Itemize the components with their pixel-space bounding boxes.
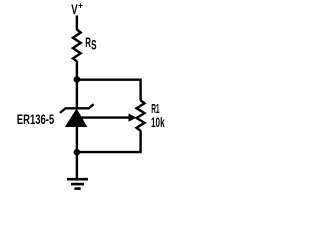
wiper arrowhead [129, 113, 137, 121]
svg-text:V: V [71, 1, 78, 17]
svg-text:R: R [85, 34, 91, 50]
node A junction dot [74, 76, 81, 83]
potentiometer R1 body [137, 100, 145, 130]
svg-text:ER136-5: ER136-5 [17, 111, 55, 127]
wire zener anode to node B [76, 127, 78, 153]
wire node A to zener cathode [76, 79, 78, 108]
node B junction dot [74, 149, 81, 156]
wire top rail node A to R1 top [77, 80, 141, 101]
svg-text:+: + [78, 1, 83, 12]
resistor RS [73, 30, 81, 62]
wire RS to node A [76, 61, 78, 79]
zener diode ER136-5 anode triangle [65, 108, 87, 127]
zener diode ER136-5 cathode bar [60, 104, 94, 113]
wiper wire to R1 [77, 116, 130, 118]
svg-text:S: S [91, 38, 96, 53]
svg-text:10k: 10k [151, 115, 165, 130]
svg-text:R1: R1 [151, 101, 159, 116]
ground symbol [67, 179, 88, 188]
wire node B to ground [76, 152, 78, 179]
wire R1 bottom to bottom rail [77, 131, 141, 153]
wire V+ to RS [76, 16, 78, 31]
